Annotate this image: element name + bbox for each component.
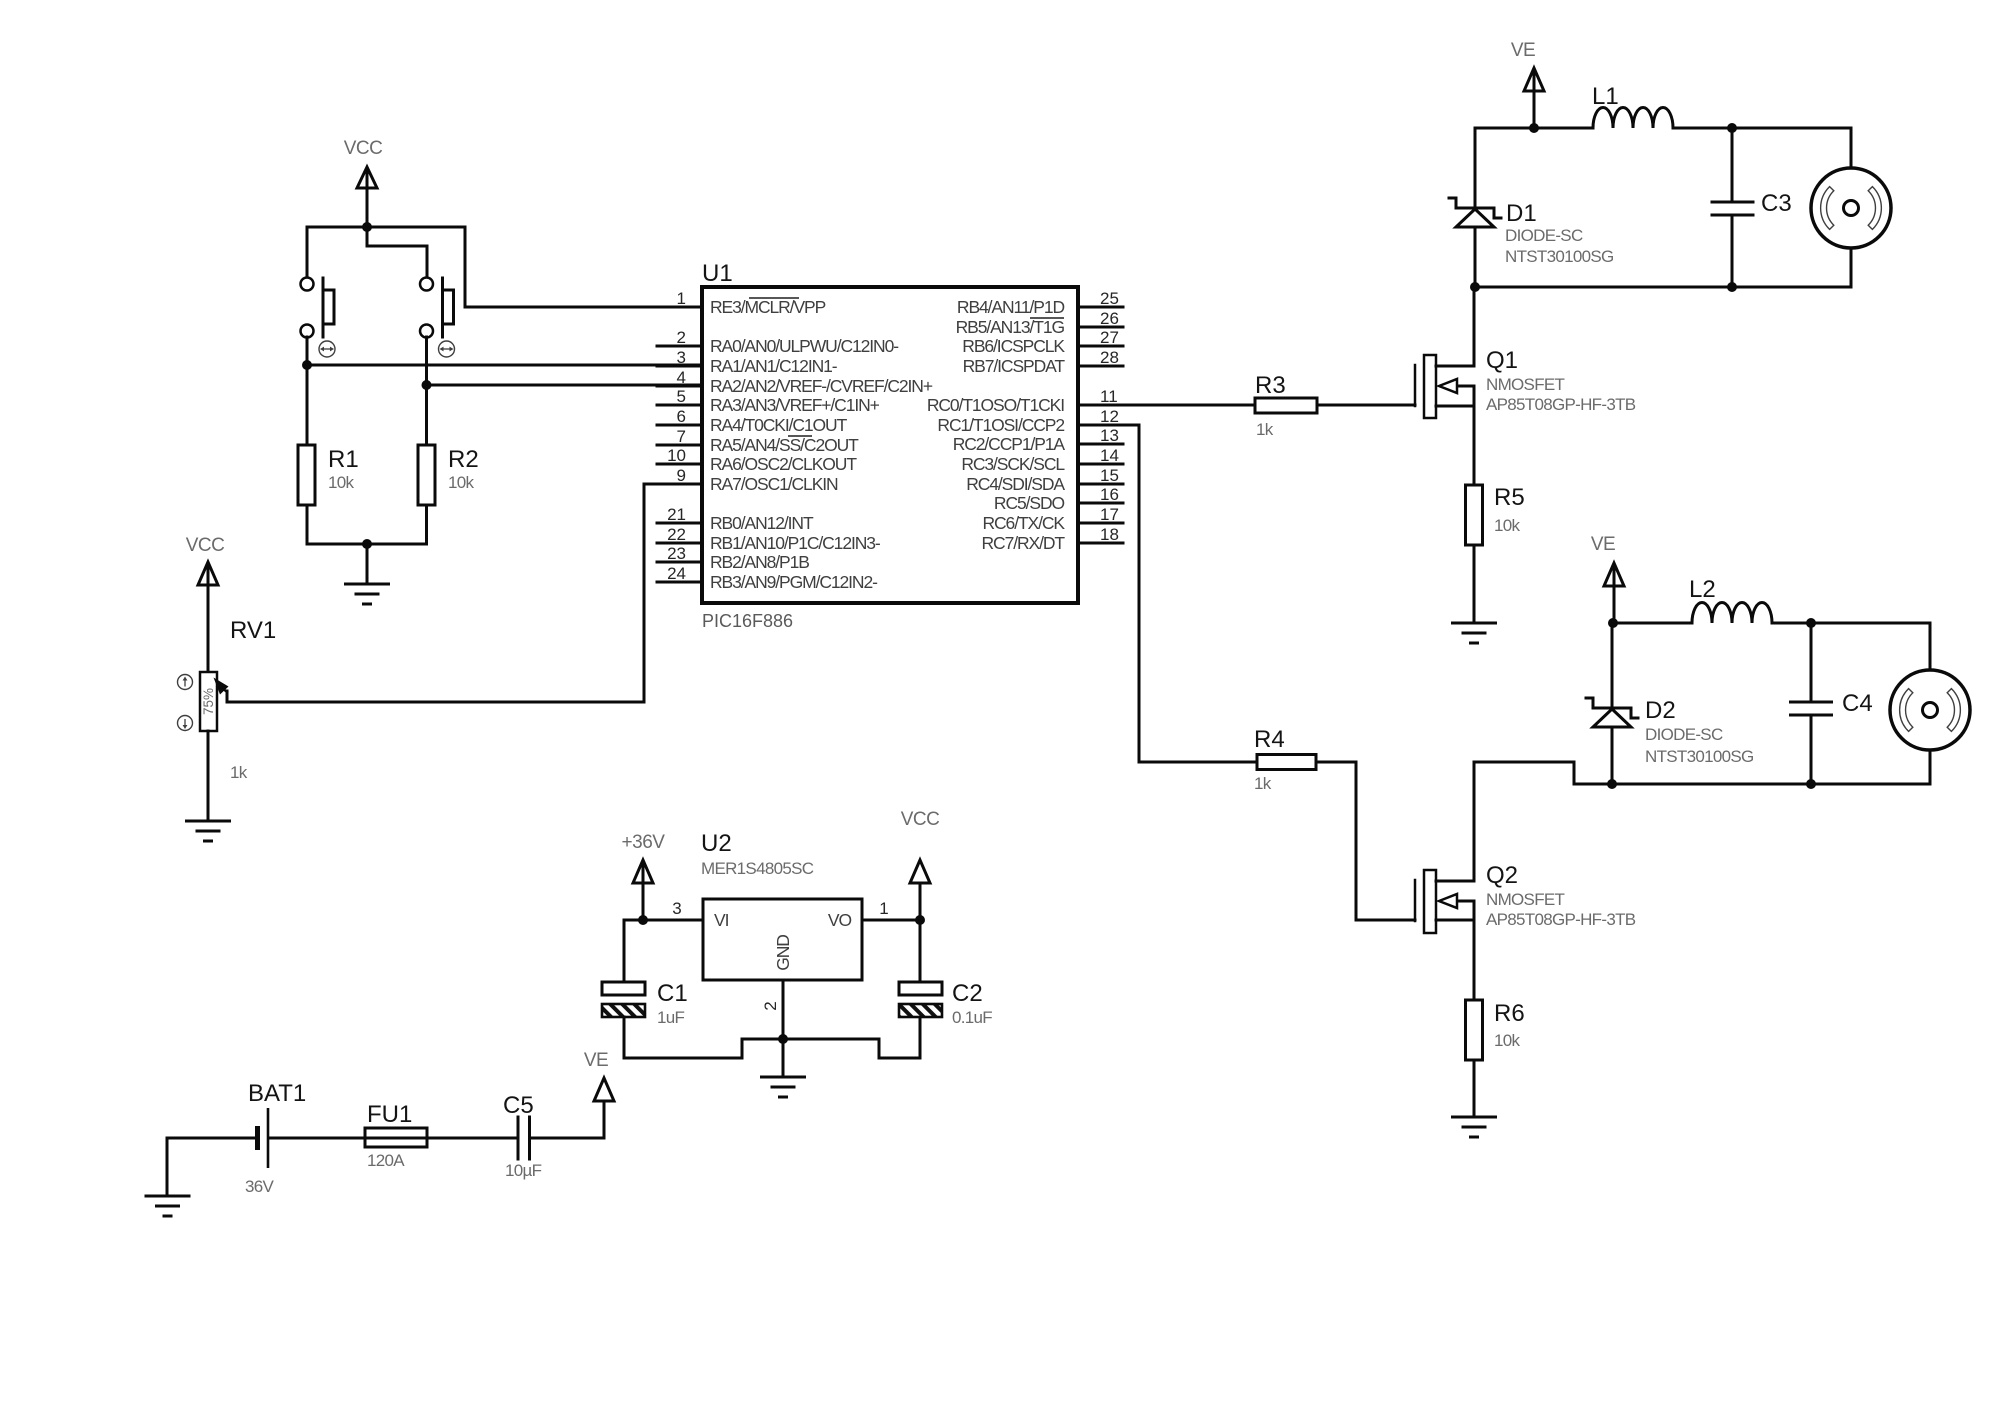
svg-text:C3: C3	[1761, 190, 1792, 217]
wire L2 to motor 2	[1772, 622, 1930, 625]
svg-text:18: 18	[1100, 525, 1119, 544]
inductor L2	[1689, 576, 1772, 623]
wire R2 bottom	[425, 505, 428, 544]
svg-text:AP85T08GP-HF-3TB: AP85T08GP-HF-3TB	[1486, 910, 1636, 929]
wire C3 top lead	[1731, 128, 1734, 200]
svg-text:9: 9	[677, 466, 686, 485]
node junction VE rail 1	[1529, 123, 1539, 133]
svg-text:BAT1: BAT1	[248, 1080, 306, 1107]
wire rail to ground	[366, 544, 369, 583]
power flag +36V	[622, 832, 666, 920]
svg-text:R1: R1	[328, 446, 359, 473]
wire C4 bottom lead	[1810, 717, 1813, 784]
resistor R1	[298, 445, 359, 505]
motor M1	[1811, 168, 1891, 248]
wire motor-2 bottom rail	[1574, 783, 1930, 786]
svg-text:NTST30100SG: NTST30100SG	[1505, 247, 1614, 266]
svg-text:4: 4	[677, 368, 686, 387]
svg-text:27: 27	[1100, 328, 1119, 347]
wire C2 bottom lead	[919, 1017, 922, 1058]
svg-text:10: 10	[667, 446, 686, 465]
node junction pin4 tap	[422, 380, 432, 390]
svg-text:36V: 36V	[245, 1177, 275, 1196]
svg-text:RA5/AN4/SS/C2OUT: RA5/AN4/SS/C2OUT	[710, 435, 859, 455]
svg-text:6: 6	[677, 407, 686, 426]
power flag VE (battery rail)	[584, 1050, 614, 1101]
svg-text:RA4/T0CKI/C1OUT: RA4/T0CKI/C1OUT	[710, 415, 848, 435]
svg-text:C4: C4	[1842, 690, 1873, 717]
capacitor C3	[1712, 190, 1792, 217]
svg-text:C1: C1	[657, 980, 688, 1007]
wire Q2 drain to flyback rail 2	[1474, 762, 1574, 881]
wire L1 to motor 1	[1673, 127, 1851, 130]
svg-text:RA6/OSC2/CLKOUT: RA6/OSC2/CLKOUT	[710, 454, 857, 474]
svg-text:10k: 10k	[448, 473, 475, 492]
svg-text:15: 15	[1100, 466, 1119, 485]
wire R6 to ground	[1473, 1060, 1476, 1116]
wire D1 bottom lead	[1474, 227, 1477, 287]
svg-text:22: 22	[667, 525, 686, 544]
svg-text:RB3/AN9/PGM/C12IN2-: RB3/AN9/PGM/C12IN2-	[710, 572, 878, 592]
wire motor-2 top rail	[1612, 622, 1692, 625]
node junction bottom rail	[362, 539, 372, 549]
wire VE rail under U2	[624, 1039, 920, 1058]
wire C4 top lead	[1810, 623, 1813, 700]
wire motor-1 bottom rail	[1475, 286, 1851, 289]
svg-text:NMOSFET: NMOSFET	[1486, 890, 1565, 909]
U1 left pin labels	[710, 297, 933, 592]
wire RV1 wiper to U1 pin 9 (RA7)	[227, 484, 702, 702]
wire left button to R1	[306, 337, 309, 445]
wire U2 GND pin 2	[782, 980, 785, 1076]
wire motor-1 top rail	[1475, 127, 1593, 130]
resistor R4	[1254, 726, 1316, 793]
svg-text:R5: R5	[1494, 484, 1525, 511]
potentiometer RV1	[178, 617, 277, 782]
motor M2	[1890, 670, 1970, 750]
svg-text:RC6/TX/CK: RC6/TX/CK	[982, 513, 1065, 533]
wire button top rail	[307, 226, 465, 229]
svg-text:L2: L2	[1689, 576, 1716, 603]
svg-text:U2: U2	[701, 830, 732, 857]
svg-text:14: 14	[1100, 446, 1119, 465]
wire U1 pin 11 to R3	[1123, 404, 1255, 407]
svg-text:1k: 1k	[1254, 774, 1272, 793]
transistor Q1 NMOSFET	[1415, 347, 1636, 418]
svg-text:VCC: VCC	[186, 535, 225, 556]
wire U2 VO (pin 1) to VCC node	[862, 919, 921, 922]
svg-text:RB6/ICSPCLK: RB6/ICSPCLK	[962, 336, 1065, 356]
node junction C4 top	[1806, 618, 1816, 628]
svg-text:R3: R3	[1255, 372, 1286, 399]
wire Q1 source to R5	[1473, 406, 1476, 485]
wire U1 pin 12 to R4	[1123, 425, 1257, 762]
svg-text:10k: 10k	[328, 473, 355, 492]
svg-text:RV1: RV1	[230, 617, 276, 644]
svg-text:RB4/AN11/P1D: RB4/AN11/P1D	[957, 297, 1065, 317]
wire VCC to RV1	[207, 567, 210, 672]
svg-text:1: 1	[677, 289, 686, 308]
svg-text:VCC: VCC	[901, 809, 940, 830]
capacitor C2 (electrolytic)	[899, 980, 992, 1027]
ground (R5)	[1453, 623, 1496, 643]
wire C5 to VE flag	[532, 1083, 605, 1138]
wire RV1 bottom to ground	[207, 731, 210, 820]
power flag VE (motor 1)	[1511, 40, 1544, 128]
svg-text:VCC: VCC	[344, 138, 383, 159]
capacitor C1 (electrolytic)	[602, 980, 688, 1027]
svg-text:RC3/SCK/SCL: RC3/SCK/SCL	[961, 454, 1065, 474]
svg-text:2: 2	[761, 1001, 780, 1010]
svg-text:D1: D1	[1506, 200, 1537, 227]
svg-text:Q1: Q1	[1486, 347, 1518, 374]
svg-text:RC0/T1OSO/T1CKI: RC0/T1OSO/T1CKI	[927, 395, 1064, 415]
svg-text:RC1/T1OSI/CCP2: RC1/T1OSI/CCP2	[937, 415, 1064, 435]
resistor R5	[1466, 484, 1525, 545]
wire C2 top lead	[919, 920, 922, 982]
svg-text:RA3/AN3/VREF+/C1IN+: RA3/AN3/VREF+/C1IN+	[710, 395, 880, 415]
svg-text:21: 21	[667, 505, 686, 524]
push button SW1	[301, 278, 336, 358]
wire to U1 pin 3 (RA1)	[307, 364, 702, 367]
wire battery to fuse to C5	[270, 1137, 516, 1140]
svg-text:11: 11	[1100, 387, 1118, 406]
regulator U2 MER1S4805SC	[701, 830, 862, 980]
ground (buttons divider)	[346, 584, 389, 604]
svg-text:0.1uF: 0.1uF	[952, 1008, 992, 1027]
wire down to C1	[623, 920, 626, 982]
svg-text:10µF: 10µF	[505, 1161, 542, 1180]
wire D2 top lead	[1611, 623, 1614, 706]
wire VCC stem to button rail	[366, 172, 369, 227]
wire R4 to Q2 gate	[1316, 762, 1415, 920]
ground (U2)	[762, 1077, 805, 1097]
resistor R3	[1255, 372, 1317, 439]
svg-text:VE: VE	[1511, 40, 1535, 61]
svg-text:VE: VE	[584, 1050, 608, 1071]
resistor R6	[1466, 1000, 1525, 1060]
svg-text:VO: VO	[828, 910, 852, 930]
svg-text:C2: C2	[952, 980, 983, 1007]
wire R5 to ground	[1473, 545, 1476, 622]
U1 left pin stubs	[657, 307, 702, 582]
svg-text:10k: 10k	[1494, 1031, 1521, 1050]
svg-text:+36V: +36V	[622, 832, 666, 853]
svg-text:1: 1	[879, 899, 888, 918]
node junction D2 bottom	[1607, 779, 1617, 789]
wire battery negative to ground	[167, 1138, 255, 1195]
svg-text:AP85T08GP-HF-3TB: AP85T08GP-HF-3TB	[1486, 395, 1636, 414]
battery BAT1	[245, 1080, 306, 1196]
wire motor 1 bottom lead	[1850, 248, 1853, 287]
svg-text:16: 16	[1100, 485, 1119, 504]
svg-text:26: 26	[1100, 309, 1119, 328]
svg-text:RC2/CCP1/P1A: RC2/CCP1/P1A	[953, 434, 1066, 454]
resistor R2	[418, 445, 479, 505]
wire to U1 pin 4 (RA2)	[427, 384, 703, 387]
wire rail to U1 pin 1	[465, 227, 702, 307]
ground (RV1)	[187, 821, 230, 841]
diode D2 (Schottky)	[1586, 697, 1754, 766]
wire motor 2 top lead	[1929, 623, 1932, 670]
svg-text:1uF: 1uF	[657, 1008, 685, 1027]
node junction pin3 tap	[302, 360, 312, 370]
svg-text:DIODE-SC: DIODE-SC	[1645, 725, 1723, 744]
diode D1 (Schottky)	[1449, 198, 1614, 266]
svg-text:Q2: Q2	[1486, 862, 1518, 889]
wire R3 to Q1 gate	[1317, 404, 1415, 407]
svg-text:23: 23	[667, 544, 686, 563]
wire bottom rail R1-R2	[307, 543, 427, 546]
svg-text:FU1: FU1	[367, 1101, 412, 1128]
svg-text:RB7/ICSPDAT: RB7/ICSPDAT	[963, 356, 1066, 376]
capacitor C4	[1791, 690, 1873, 717]
svg-text:28: 28	[1100, 348, 1119, 367]
svg-text:R2: R2	[448, 446, 479, 473]
U1 right pin labels	[927, 297, 1066, 553]
svg-text:75%: 75%	[201, 688, 216, 715]
ground (R6)	[1453, 1117, 1496, 1137]
transistor Q2 NMOSFET	[1415, 862, 1636, 933]
inductor L1	[1592, 83, 1673, 128]
svg-text:24: 24	[667, 564, 686, 583]
svg-text:RA0/AN0/ULPWU/C12IN0-: RA0/AN0/ULPWU/C12IN0-	[710, 336, 899, 356]
svg-text:RB1/AN10/P1C/C12IN3-: RB1/AN10/P1C/C12IN3-	[710, 533, 881, 553]
svg-text:VE: VE	[1591, 534, 1615, 555]
svg-text:U1: U1	[702, 260, 733, 287]
svg-text:RC4/SDI/SDA: RC4/SDI/SDA	[966, 474, 1065, 494]
wire Q1 drain up to flyback rail	[1473, 287, 1476, 366]
svg-text:NTST30100SG: NTST30100SG	[1645, 747, 1754, 766]
fuse FU1	[365, 1101, 427, 1170]
node junction VCC out	[915, 915, 925, 925]
power flag VCC (RV1)	[186, 535, 225, 585]
node junction VE rail 2	[1608, 618, 1618, 628]
svg-text:GND: GND	[773, 935, 793, 971]
wire C1 bottom to VE rail	[623, 1017, 626, 1058]
wire D2 bottom lead	[1611, 727, 1614, 784]
wire right button to R2	[425, 337, 428, 445]
wire R1 bottom	[306, 505, 309, 544]
svg-text:RA1/AN1/C12IN1-: RA1/AN1/C12IN1-	[710, 356, 838, 376]
U1 right pin numbers	[1100, 289, 1119, 544]
svg-text:3: 3	[672, 899, 681, 918]
node junction C3 top	[1727, 123, 1737, 133]
wire D1 top lead	[1474, 128, 1477, 206]
power flag VCC (top-left)	[344, 138, 383, 188]
svg-text:PIC16F886: PIC16F886	[702, 611, 793, 631]
svg-text:7: 7	[677, 427, 686, 446]
microcontroller U1 PIC16F886 body	[702, 260, 1078, 631]
ground (battery)	[146, 1196, 189, 1216]
wire +36V node to U2 VI (pin 3)	[624, 919, 703, 922]
svg-text:L1: L1	[1592, 83, 1619, 110]
svg-text:1k: 1k	[1256, 420, 1274, 439]
svg-text:120A: 120A	[367, 1151, 405, 1170]
svg-text:DIODE-SC: DIODE-SC	[1505, 226, 1583, 245]
node junction C3 bottom	[1727, 282, 1737, 292]
wire motor 2 bottom lead	[1929, 750, 1932, 784]
svg-text:RC5/SDO: RC5/SDO	[994, 493, 1065, 513]
svg-text:RA7/OSC1/CLKIN: RA7/OSC1/CLKIN	[710, 474, 838, 494]
svg-text:5: 5	[677, 387, 686, 406]
svg-text:MER1S4805SC: MER1S4805SC	[701, 859, 814, 878]
wire rail to right button	[367, 227, 427, 277]
svg-text:RC7/RX/DT: RC7/RX/DT	[982, 533, 1066, 553]
push button SW2	[420, 278, 455, 358]
wire Q2 source to R6	[1473, 920, 1476, 1000]
wire motor 1 top lead	[1850, 128, 1853, 168]
wire rail to left button	[306, 227, 309, 277]
svg-text:1k: 1k	[230, 763, 248, 782]
svg-text:C5: C5	[503, 1092, 534, 1119]
wire C3 bottom lead	[1731, 217, 1734, 287]
capacitor C5	[503, 1092, 542, 1180]
svg-text:R4: R4	[1254, 726, 1285, 753]
node junction D1 bottom	[1470, 282, 1480, 292]
power flag VE (motor 2)	[1591, 534, 1624, 623]
svg-text:10k: 10k	[1494, 516, 1521, 535]
svg-text:NMOSFET: NMOSFET	[1486, 375, 1565, 394]
U1 right pin stubs	[1078, 307, 1123, 543]
svg-text:D2: D2	[1645, 697, 1676, 724]
power flag VCC (U2 output)	[901, 809, 940, 920]
svg-text:2: 2	[677, 328, 686, 347]
node junction GND rail	[778, 1034, 788, 1044]
svg-text:25: 25	[1100, 289, 1119, 308]
svg-text:RA2/AN2/VREF-/CVREF/C2IN+: RA2/AN2/VREF-/CVREF/C2IN+	[710, 376, 933, 396]
svg-text:R6: R6	[1494, 1000, 1525, 1027]
node junction VCC rail	[362, 222, 372, 232]
svg-text:RB2/AN8/P1B: RB2/AN8/P1B	[710, 552, 809, 572]
node junction C4 bottom	[1806, 779, 1816, 789]
svg-text:RE3/MCLR/VPP: RE3/MCLR/VPP	[710, 297, 826, 317]
U1 left pin numbers	[667, 289, 686, 583]
svg-text:13: 13	[1100, 426, 1119, 445]
svg-text:RB0/AN12/INT: RB0/AN12/INT	[710, 513, 814, 533]
U1 pin-label overlines (MCLR, SS, T1G)	[749, 298, 1064, 436]
svg-text:12: 12	[1100, 407, 1119, 426]
svg-text:3: 3	[677, 348, 686, 367]
svg-text:RB5/AN13/T1G: RB5/AN13/T1G	[956, 317, 1065, 337]
svg-text:VI: VI	[714, 910, 729, 930]
node junction +36V	[638, 915, 648, 925]
svg-text:17: 17	[1100, 505, 1119, 524]
